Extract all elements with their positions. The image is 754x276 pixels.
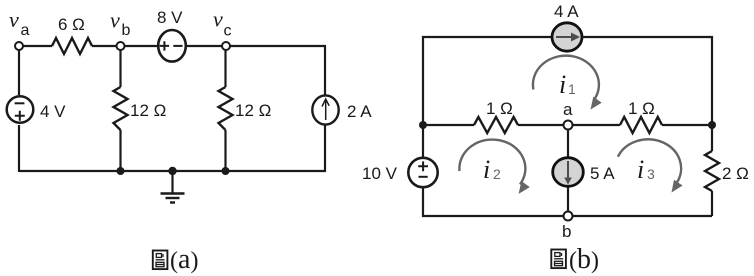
wire: 10V source down to bottom-left corner, bottom rail to node b xyxy=(423,188,564,217)
voltage source V 10V xyxy=(362,158,438,187)
loop arrow i1 xyxy=(533,56,602,110)
node v_b xyxy=(110,8,131,51)
svg-text:12 Ω: 12 Ω xyxy=(235,101,271,120)
svg-text:b: b xyxy=(122,22,131,39)
svg-text:v: v xyxy=(213,7,223,32)
resistor R 1 ohm (left) xyxy=(474,99,518,133)
node a xyxy=(563,100,573,130)
svg-text:2 A: 2 A xyxy=(347,102,372,121)
svg-text:(a): (a) xyxy=(170,244,198,275)
loop arrow i2 xyxy=(459,140,529,194)
svg-text:5 A: 5 A xyxy=(590,164,615,183)
svg-text:3: 3 xyxy=(647,166,655,182)
wire: 8V source to node v_c xyxy=(186,45,222,47)
voltage source V 4V xyxy=(7,96,66,123)
wire: circuit (b) left edge and top rail to 4A source xyxy=(423,37,552,125)
svg-text:4 V: 4 V xyxy=(40,102,66,121)
svg-text:v: v xyxy=(9,7,19,32)
voltage source V 8V xyxy=(157,8,186,62)
wire: right 1-ohm to right node xyxy=(662,124,712,126)
junction dot right node xyxy=(708,121,716,129)
node v_c xyxy=(213,7,232,51)
svg-text:b: b xyxy=(562,222,571,241)
resistor R 12 ohm (left) xyxy=(114,87,167,130)
wire: 4A source to top-right corner down to right node xyxy=(582,37,712,125)
wire: left node to 1-ohm resistor xyxy=(423,124,474,126)
svg-text:c: c xyxy=(224,23,232,40)
svg-text:12 Ω: 12 Ω xyxy=(130,101,166,120)
resistor R 2 ohm xyxy=(705,151,749,191)
wire: node b to bottom-right corner xyxy=(573,215,713,217)
wire: v_c to top-right corner and down to 2A source xyxy=(230,46,325,95)
svg-text:8 V: 8 V xyxy=(157,8,183,27)
ground xyxy=(161,167,185,203)
wire: v_a down to 4V source xyxy=(18,50,20,95)
svg-text:2 Ω: 2 Ω xyxy=(722,164,749,183)
svg-text:i: i xyxy=(559,70,566,99)
wire: v_b down to 12-ohm resistor xyxy=(119,50,121,87)
svg-text:a: a xyxy=(21,22,30,39)
wire: 4V source down to bottom-left corner xyxy=(18,125,20,172)
caption figure (a) xyxy=(153,244,199,275)
svg-text:10 V: 10 V xyxy=(362,164,398,183)
wire: circuit (a) top rail v_a to 6-ohm resistor xyxy=(23,45,52,47)
svg-text:6 Ω: 6 Ω xyxy=(58,15,85,34)
svg-text:v: v xyxy=(110,8,120,33)
svg-text:i: i xyxy=(637,155,644,184)
svg-text:1 Ω: 1 Ω xyxy=(486,99,513,118)
loop arrow i3 xyxy=(618,139,683,192)
wire: 6-ohm to node v_b xyxy=(92,45,116,47)
svg-text:1: 1 xyxy=(568,81,576,97)
wire: 2-ohm resistor to bottom-right corner xyxy=(711,191,713,216)
wire: node a down to 5A source xyxy=(567,130,569,158)
svg-text:a: a xyxy=(563,100,573,119)
wire: left node down to 10V source xyxy=(422,125,424,157)
wire: node a to right 1-ohm resistor xyxy=(573,124,621,126)
current source I 2A xyxy=(312,95,372,124)
resistor R 1 ohm (right) xyxy=(620,99,662,133)
wire: right node down to 2-ohm resistor xyxy=(711,125,713,151)
svg-text:1 Ω: 1 Ω xyxy=(628,99,655,118)
current source I 5A xyxy=(553,158,616,187)
node b xyxy=(562,212,573,242)
wire: 2A source down to bottom-right corner xyxy=(19,125,325,172)
wire: v_c down to 12-ohm resistor xyxy=(224,50,226,87)
svg-text:2: 2 xyxy=(493,166,501,182)
svg-text:i: i xyxy=(483,155,490,184)
node v_a xyxy=(9,7,30,50)
svg-text:4 A: 4 A xyxy=(554,2,579,21)
svg-text:(b): (b) xyxy=(569,244,599,275)
resistor R 12 ohm (right) xyxy=(219,87,272,130)
resistor R 6 ohm xyxy=(52,15,92,54)
wire: 1-ohm to node a xyxy=(518,124,564,126)
wire: left 12-ohm to bottom rail with junction dot xyxy=(117,130,125,175)
caption figure (b) xyxy=(551,244,599,275)
wire: right 12-ohm to bottom rail with junction dot xyxy=(222,130,230,175)
wire: v_b to 8V source xyxy=(125,45,159,47)
junction dot left node xyxy=(419,121,427,129)
current source I 4A xyxy=(552,2,582,51)
wire: 5A source down to node b xyxy=(567,188,569,212)
